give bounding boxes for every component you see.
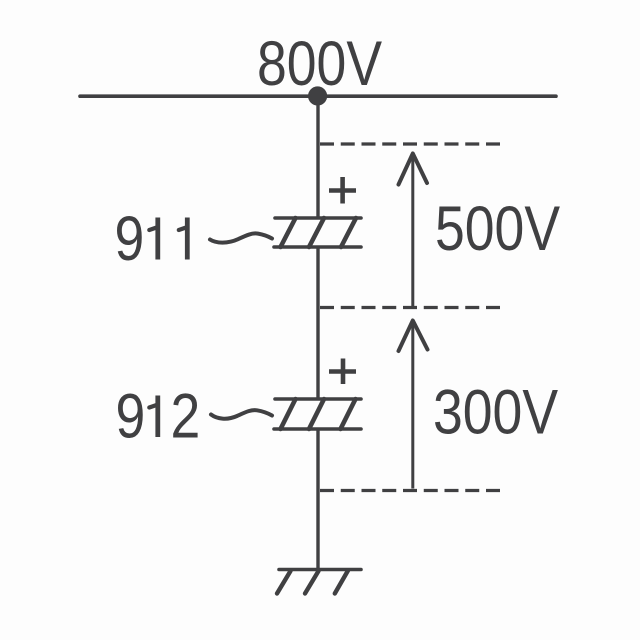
dashed reference line: 300V level <box>320 306 500 309</box>
label 911 <box>115 204 188 274</box>
svg-text:9: 9 <box>115 204 145 274</box>
label 912 <box>116 381 201 451</box>
wire: capacitor 912 to ground <box>316 429 319 570</box>
arrow for 300V span (shaft) <box>411 323 414 489</box>
polarity plus sign for capacitor 911 <box>329 177 356 204</box>
dashed reference line: 0V level <box>320 489 500 492</box>
junction node dot on 800V bus <box>308 86 327 105</box>
wire: between capacitor 911 and capacitor 912 <box>316 247 319 399</box>
arrow for 500V span (open head) <box>399 154 428 185</box>
svg-text:500V: 500V <box>435 194 560 264</box>
polarity plus sign for capacitor 912 <box>329 359 356 385</box>
wire: vertical from node to capacitor 911 <box>316 96 319 218</box>
dashed reference line: 800V level <box>320 142 500 145</box>
arrow for 500V span (shaft) <box>411 156 414 307</box>
ground symbol <box>277 570 361 594</box>
svg-text:9: 9 <box>116 381 146 451</box>
capacitor 912 (hatched parallelogram symbol) <box>274 399 361 429</box>
svg-text:300V: 300V <box>433 377 558 447</box>
leader squiggle from 912 to capacitor <box>211 410 272 419</box>
capacitor 911 (hatched parallelogram symbol) <box>274 218 361 247</box>
wire: 800V horizontal bus <box>80 94 556 98</box>
svg-text:2: 2 <box>171 381 201 451</box>
leader squiggle from 911 to capacitor <box>210 233 272 242</box>
arrow for 300V span (open head) <box>399 321 428 352</box>
